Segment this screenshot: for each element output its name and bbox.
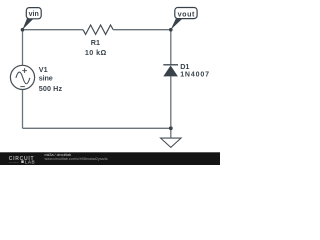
svg-text:D1: D1 [180, 62, 189, 71]
svg-text:R1: R1 [91, 38, 100, 47]
svg-text:500 Hz: 500 Hz [39, 84, 63, 93]
svg-text:~~~~: ~~~~ [9, 160, 20, 165]
svg-text:vin: vin [29, 11, 39, 18]
svg-text:vout: vout [178, 10, 195, 19]
svg-text:sine: sine [39, 73, 53, 82]
svg-text:LAB: LAB [25, 160, 36, 165]
svg-text:10 kΩ: 10 kΩ [85, 48, 107, 57]
svg-text:www.circuitlab.com/c/h98malad2: www.circuitlab.com/c/h98malad2ysa4s [45, 157, 108, 161]
svg-text:1N4007: 1N4007 [180, 72, 210, 79]
